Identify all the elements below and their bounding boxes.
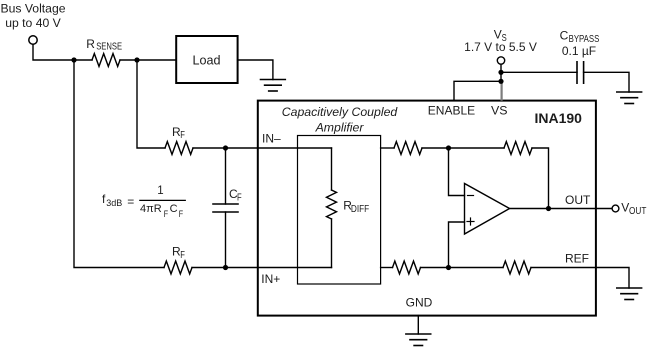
svg-text:F: F [164,208,168,219]
resistor input top [394,142,422,155]
ground [617,92,642,104]
svg-text:C: C [170,203,178,215]
wire [137,60,165,148]
svg-text:INA190: INA190 [535,110,583,126]
svg-text:Amplifier: Amplifier [315,121,365,135]
node junction [498,70,503,75]
ground [261,80,286,92]
wire [33,44,92,60]
wire GND pin [417,316,419,334]
ground [406,334,431,346]
svg-text:REF: REF [565,252,589,266]
op-amp A1 [465,184,510,235]
node bus voltage terminal [29,36,37,44]
svg-text:F: F [180,129,185,140]
wire VS pin [501,82,503,100]
wire [421,267,504,269]
op-amp plus sign [467,218,474,225]
wire [238,60,273,80]
svg-text:OUT: OUT [565,193,591,207]
svg-text:C: C [560,29,569,43]
wire [501,71,577,73]
svg-text:4πR: 4πR [140,203,162,215]
wire [449,222,465,268]
wire [531,268,629,289]
node junction [546,206,551,211]
svg-text:0.1 µF: 0.1 µF [562,44,596,58]
node junction [446,265,451,270]
node VS terminal [497,57,504,64]
svg-text:1.7 V to 5.5 V: 1.7 V to 5.5 V [464,40,537,54]
op-amp minus sign [468,195,474,197]
node junction [71,57,76,62]
node VOUT terminal [612,205,619,212]
wire [120,59,176,61]
wire [331,148,333,190]
svg-text:3dB: 3dB [106,198,122,208]
svg-text:IN–: IN– [262,132,281,146]
wire [381,147,394,149]
resistor RDIFF [327,190,337,219]
resistor RSENSE [92,54,120,67]
svg-text:Capacitively Coupled: Capacitively Coupled [282,105,399,119]
svg-text:F: F [179,208,183,219]
wire [192,267,332,269]
node junction [498,79,503,84]
wire [381,267,393,269]
wire [193,147,332,149]
capacitor CBYPASS [577,62,584,83]
svg-text:=: = [127,194,134,208]
wire [510,208,613,210]
ground [617,288,642,300]
svg-text:1: 1 [157,185,163,197]
svg-text:V: V [621,201,629,215]
wire [331,219,333,268]
svg-text:F: F [237,191,242,202]
svg-text:F: F [180,249,185,260]
resistor REF [503,261,531,274]
svg-text:VS: VS [491,104,508,118]
wire [422,147,504,149]
resistor RF bottom [164,261,192,274]
svg-text:up to 40 V: up to 40 V [5,16,61,30]
label formula f3dB [102,185,186,219]
node junction [134,57,139,62]
load block [176,36,237,83]
svg-text:SENSE: SENSE [96,41,122,52]
node junction [223,145,228,150]
wire [449,148,465,196]
resistor input bottom [393,261,421,274]
svg-text:OUT: OUT [629,205,647,216]
svg-text:Bus Voltage: Bus Voltage [0,2,65,16]
wire [74,60,164,268]
svg-text:BYPASS: BYPASS [569,33,600,44]
amplifier inner block [298,136,381,285]
node junction [446,145,451,150]
svg-text:Load: Load [192,54,220,68]
svg-text:IN+: IN+ [261,272,280,286]
svg-text:R: R [86,37,95,51]
op-amp U1 INA190 outline [258,101,596,316]
node junction [223,265,228,270]
svg-text:GND: GND [406,296,433,310]
wire [454,81,501,100]
capacitor CF [213,148,238,268]
svg-text:ENABLE: ENABLE [428,104,475,118]
wire [500,64,502,82]
resistor RF top [165,142,193,155]
wire [584,72,629,92]
wire [532,148,549,209]
resistor feedback [504,142,532,155]
svg-text:DIFF: DIFF [351,203,370,214]
